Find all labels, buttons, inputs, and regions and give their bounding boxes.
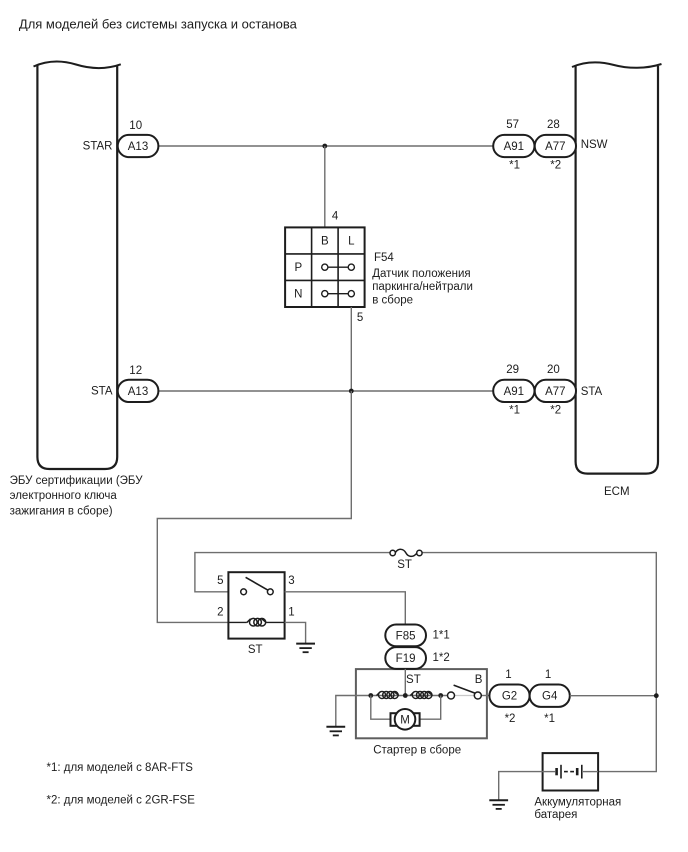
svg-text:*1: *1	[544, 713, 555, 725]
svg-text:Стартер в сборе: Стартер в сборе	[373, 744, 461, 756]
wire relay pin 1 to ground	[285, 622, 306, 643]
starter internal bus wire	[356, 695, 490, 697]
svg-text:паркинга/нейтрали: паркинга/нейтрали	[372, 281, 473, 293]
label NSW	[581, 139, 608, 151]
svg-text:29: 29	[506, 364, 519, 376]
connector G4 pin 1	[530, 669, 570, 725]
svg-text:12: 12	[129, 365, 142, 377]
svg-text:A91: A91	[504, 141, 524, 153]
svg-text:ECM: ECM	[604, 486, 630, 498]
svg-text:STAR: STAR	[83, 141, 113, 153]
parking/neutral position switch F54	[285, 227, 365, 307]
svg-text:Для моделей без системы запуск: Для моделей без системы запуска и остано…	[19, 16, 298, 31]
label ST (starter)	[406, 674, 421, 686]
svg-text:*1: *1	[509, 160, 520, 172]
starter assembly label	[373, 744, 461, 756]
ground (starter)	[326, 727, 345, 736]
ground (relay)	[296, 644, 315, 653]
svg-text:M: M	[400, 715, 410, 727]
smart-key certification ECU box	[34, 62, 121, 469]
connector A91 pin 29	[493, 364, 534, 417]
wire starter to ground	[336, 696, 356, 727]
connector G2 pin 1	[489, 669, 529, 725]
wire STA row	[158, 390, 493, 392]
node junction coil right	[438, 693, 443, 698]
svg-text:F54: F54	[374, 252, 394, 264]
starter relay ST box	[217, 572, 295, 656]
label B (starter)	[475, 674, 483, 686]
wire relay pin 5 feed	[195, 553, 390, 592]
svg-text:L: L	[348, 236, 355, 248]
svg-text:1*1: 1*1	[433, 630, 450, 642]
ECM box	[572, 62, 662, 473]
svg-text:STA: STA	[581, 386, 603, 398]
wire fuse to battery vertical	[422, 553, 656, 772]
ground (battery)	[489, 800, 508, 809]
svg-text:батарея: батарея	[534, 809, 577, 821]
svg-text:5: 5	[217, 575, 223, 587]
ECM label	[604, 486, 630, 498]
svg-text:1: 1	[288, 606, 294, 618]
svg-text:F85: F85	[396, 630, 416, 642]
svg-text:*1: для моделей с 8AR-FTS: *1: для моделей с 8AR-FTS	[47, 762, 194, 774]
svg-text:P: P	[294, 262, 302, 274]
fuse ST	[390, 549, 422, 571]
smart-key certification ECU label	[10, 475, 144, 518]
battery label	[534, 796, 621, 821]
battery box	[543, 753, 599, 790]
title	[19, 16, 298, 31]
footnote *1	[47, 762, 194, 774]
svg-text:4: 4	[332, 211, 339, 223]
starter assembly box	[356, 669, 487, 738]
footnote *2	[47, 794, 196, 806]
svg-text:*2: *2	[550, 405, 561, 417]
svg-text:G4: G4	[542, 691, 558, 703]
svg-text:*2: для моделей с 2GR-FSE: *2: для моделей с 2GR-FSE	[47, 794, 196, 806]
svg-text:3: 3	[288, 575, 294, 587]
connector A13 pin 10 (STAR)	[83, 120, 159, 157]
svg-text:57: 57	[506, 119, 519, 131]
wire battery to ground	[499, 772, 543, 801]
svg-text:ST: ST	[397, 559, 412, 571]
svg-text:STA: STA	[91, 386, 113, 398]
svg-text:B: B	[475, 674, 483, 686]
label STA (ECM side)	[581, 386, 603, 398]
connector F85	[385, 625, 449, 647]
svg-text:1*2: 1*2	[433, 652, 450, 664]
svg-text:в сборе: в сборе	[372, 294, 413, 306]
svg-text:10: 10	[129, 120, 142, 132]
connector A77 pin 20	[535, 364, 576, 417]
node junction STAR/F54	[322, 144, 327, 149]
connector F19	[385, 647, 449, 669]
svg-text:A13: A13	[128, 386, 148, 398]
svg-text:зажигания в сборе): зажигания в сборе)	[10, 506, 113, 518]
wire F54 pin 4	[324, 146, 326, 227]
svg-text:*2: *2	[550, 160, 561, 172]
svg-text:F19: F19	[396, 653, 416, 665]
wire STA junction to relay coil pin 2	[157, 391, 351, 622]
node junction STA/F54	[349, 389, 354, 394]
svg-text:A77: A77	[545, 141, 565, 153]
starter magnetic switch contact	[448, 685, 482, 699]
svg-text:Датчик положения: Датчик положения	[372, 268, 470, 280]
svg-text:ЭБУ сертификации (ЭБУ: ЭБУ сертификации (ЭБУ	[10, 475, 144, 487]
svg-text:1: 1	[545, 669, 551, 681]
connector A91 pin 57	[493, 119, 534, 171]
svg-text:1: 1	[505, 669, 511, 681]
svg-text:NSW: NSW	[581, 139, 608, 151]
svg-text:2: 2	[217, 606, 223, 618]
svg-text:электронного ключа: электронного ключа	[10, 490, 118, 502]
node junction coil left	[368, 693, 373, 698]
connector A13 pin 12 (STA)	[91, 365, 158, 402]
pin label 4	[332, 211, 339, 223]
wire relay pin 3 to F85	[285, 592, 406, 625]
svg-text:A91: A91	[504, 386, 524, 398]
svg-text:N: N	[294, 289, 302, 301]
node junction coil mid	[403, 693, 408, 698]
starter hold-in coil	[377, 691, 399, 698]
starter motor M	[371, 696, 441, 730]
svg-text:28: 28	[547, 119, 560, 131]
svg-text:A13: A13	[128, 141, 148, 153]
svg-text:Аккумуляторная: Аккумуляторная	[534, 796, 621, 808]
wire STAR row	[158, 145, 493, 147]
svg-text:A77: A77	[545, 386, 565, 398]
wire F19 to starter coil junction	[404, 669, 406, 696]
F54 component label	[372, 252, 473, 306]
svg-text:B: B	[321, 236, 329, 248]
svg-text:ST: ST	[248, 644, 263, 656]
wire F54 pin 5	[350, 307, 352, 391]
connector A77 pin 28	[535, 119, 576, 171]
node junction battery feed	[654, 693, 659, 698]
svg-text:*1: *1	[509, 405, 520, 417]
svg-text:ST: ST	[406, 674, 421, 686]
wire G4 to battery vertical	[570, 695, 657, 697]
starter pull-in coil	[410, 691, 432, 698]
svg-text:G2: G2	[502, 691, 517, 703]
svg-text:5: 5	[357, 312, 363, 324]
pin label 5	[357, 312, 363, 324]
svg-text:20: 20	[547, 364, 560, 376]
svg-text:*2: *2	[505, 713, 516, 725]
